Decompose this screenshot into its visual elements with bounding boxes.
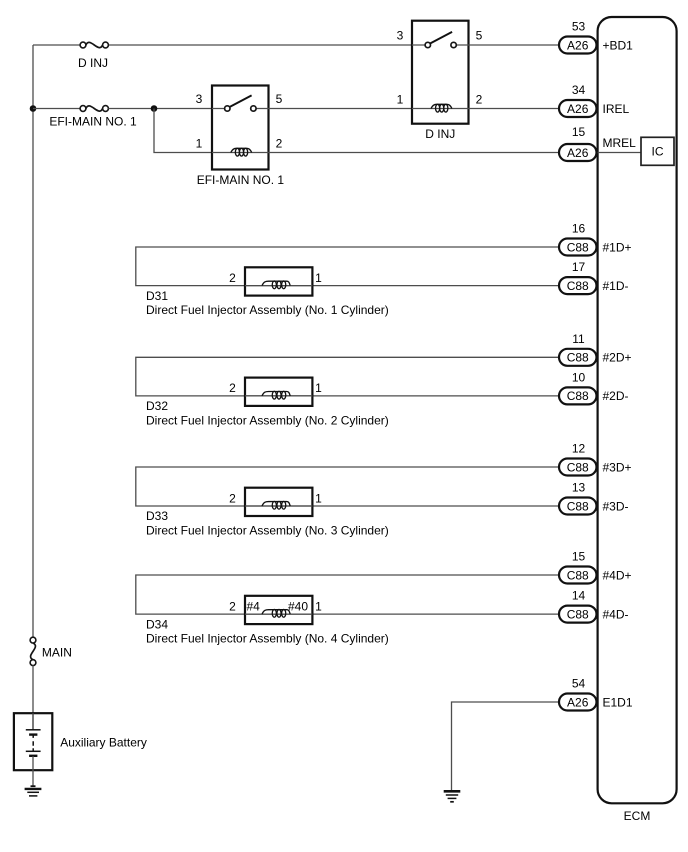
svg-text:#40: #40 bbox=[288, 599, 308, 613]
battery plate long + bbox=[26, 729, 41, 731]
fusible link MAIN bbox=[30, 637, 36, 665]
svg-text:A26: A26 bbox=[567, 102, 589, 116]
wire: R1 pin2 to MREL oval bbox=[269, 152, 560, 154]
svg-text:C88: C88 bbox=[567, 351, 589, 365]
connector C88 pin 12 bbox=[559, 442, 597, 476]
svg-text:C88: C88 bbox=[567, 389, 589, 403]
svg-text:D32: D32 bbox=[146, 399, 168, 413]
connector A26 pin 54 bbox=[559, 677, 597, 711]
wire: MREL oval to IC bbox=[597, 152, 642, 154]
svg-text:Direct Fuel Injector Assembly: Direct Fuel Injector Assembly (No. 4 Cyl… bbox=[146, 632, 389, 646]
svg-text:A26: A26 bbox=[567, 695, 589, 709]
wire through box bbox=[245, 505, 312, 507]
svg-text:3: 3 bbox=[196, 92, 203, 106]
connector A26 pin 15 bbox=[559, 125, 597, 161]
svg-text:#1D+: #1D+ bbox=[603, 240, 632, 254]
svg-text:11: 11 bbox=[572, 332, 585, 346]
svg-text:D33: D33 bbox=[146, 509, 168, 523]
svg-text:1: 1 bbox=[315, 491, 322, 505]
wire: E1D1 to ground bbox=[452, 702, 560, 791]
auxiliary battery bbox=[14, 713, 52, 786]
injector section D31 bbox=[136, 247, 559, 317]
svg-text:EFI-MAIN NO. 1: EFI-MAIN NO. 1 bbox=[197, 173, 285, 187]
injector D33 box bbox=[245, 488, 312, 516]
svg-text:D INJ: D INJ bbox=[78, 56, 108, 70]
svg-text:C88: C88 bbox=[567, 607, 589, 621]
svg-text:17: 17 bbox=[572, 260, 586, 274]
svg-text:E1D1: E1D1 bbox=[603, 695, 633, 709]
svg-text:MREL: MREL bbox=[603, 136, 637, 150]
relay EFI-MAIN NO. 1 bbox=[212, 86, 269, 170]
injector D34 box bbox=[245, 596, 312, 624]
svg-text:Direct Fuel Injector Assembly: Direct Fuel Injector Assembly (No. 1 Cyl… bbox=[146, 303, 389, 317]
svg-text:ECM: ECM bbox=[624, 809, 651, 823]
svg-text:53: 53 bbox=[572, 20, 586, 34]
battery plate short 2 bbox=[29, 755, 37, 757]
svg-text:A26: A26 bbox=[567, 146, 589, 160]
svg-text:C88: C88 bbox=[567, 460, 589, 474]
wire through box bbox=[245, 395, 312, 397]
svg-text:1: 1 bbox=[315, 381, 322, 395]
svg-text:5: 5 bbox=[276, 92, 283, 106]
relay coil R1 bbox=[231, 148, 252, 152]
svg-text:C88: C88 bbox=[567, 279, 589, 293]
junction dot branch bbox=[151, 105, 158, 112]
wire: #1D+ top run bbox=[136, 247, 559, 286]
svg-text:15: 15 bbox=[572, 550, 586, 564]
switch contacts R1 bbox=[225, 106, 230, 111]
svg-text:#3D-: #3D- bbox=[603, 499, 629, 513]
wire: #4D+ top run bbox=[136, 575, 559, 614]
svg-text:15: 15 bbox=[572, 125, 586, 139]
svg-text:D INJ: D INJ bbox=[425, 127, 455, 141]
coil D33 bbox=[262, 502, 290, 506]
svg-text:10: 10 bbox=[572, 370, 586, 384]
wire R1 switch stubs bbox=[212, 108, 269, 110]
wire: #3D+ top run bbox=[136, 467, 559, 506]
svg-text:C88: C88 bbox=[567, 568, 589, 582]
switch arm R1 bbox=[230, 95, 252, 107]
svg-text:13: 13 bbox=[572, 481, 586, 495]
ground (ECM E1D1) bbox=[444, 791, 461, 802]
svg-text:3: 3 bbox=[397, 29, 404, 43]
wire: fuse to relay R1 pin 3 bbox=[109, 108, 213, 110]
svg-text:IC: IC bbox=[652, 145, 664, 159]
IC box bbox=[641, 137, 674, 165]
svg-text:IREL: IREL bbox=[603, 102, 630, 116]
wire: MAIN link to battery bbox=[32, 665, 34, 729]
relay D INJ bbox=[412, 21, 469, 124]
switch contacts R2 bbox=[425, 42, 430, 47]
connector C88 pin 14 bbox=[559, 589, 597, 623]
svg-text:2: 2 bbox=[229, 381, 236, 395]
battery plate short - bbox=[29, 733, 37, 735]
svg-text:34: 34 bbox=[572, 83, 586, 97]
coil D32 bbox=[262, 392, 290, 396]
svg-text:1: 1 bbox=[315, 599, 322, 613]
svg-text:Direct Fuel Injector Assembly: Direct Fuel Injector Assembly (No. 3 Cyl… bbox=[146, 524, 389, 538]
wire battery lead bbox=[32, 713, 34, 729]
battery plate long 2 bbox=[26, 750, 41, 752]
connector C88 pin 10 bbox=[559, 370, 597, 404]
connector C88 pin 15 bbox=[559, 550, 597, 584]
wire R2 switch stubs bbox=[412, 44, 469, 46]
injector section D33 bbox=[136, 467, 559, 538]
wire R2 coil row bbox=[412, 108, 469, 110]
svg-text:A26: A26 bbox=[567, 38, 589, 52]
switch arm R2 bbox=[430, 32, 452, 44]
wire: R2 pin5 to +BD1 oval bbox=[469, 44, 560, 46]
wire: R2 pin2 to IREL oval bbox=[469, 108, 560, 110]
svg-text:2: 2 bbox=[229, 271, 236, 285]
injector D31 box bbox=[245, 267, 312, 295]
svg-text:Direct Fuel Injector Assembly: Direct Fuel Injector Assembly (No. 2 Cyl… bbox=[146, 414, 389, 428]
injector section D32 bbox=[136, 357, 559, 427]
svg-text:#4D-: #4D- bbox=[603, 607, 629, 621]
svg-text:+BD1: +BD1 bbox=[603, 38, 634, 52]
ground (battery) bbox=[25, 786, 42, 796]
svg-text:16: 16 bbox=[572, 222, 586, 236]
svg-text:14: 14 bbox=[572, 589, 586, 603]
svg-text:Auxiliary Battery: Auxiliary Battery bbox=[60, 736, 147, 750]
svg-text:#4D+: #4D+ bbox=[603, 568, 632, 582]
wire: #2D+ top run bbox=[136, 357, 559, 396]
injector section D34 bbox=[136, 575, 559, 646]
wire battery to ground bbox=[32, 756, 34, 787]
svg-text:#4: #4 bbox=[247, 599, 261, 613]
svg-text:54: 54 bbox=[572, 677, 586, 691]
wire: row2 to EFI-MAIN fuse bbox=[33, 108, 80, 110]
junction dot row2 bbox=[30, 105, 37, 112]
wire: row1 battery feed to D INJ fuse bbox=[33, 44, 80, 46]
wire: branch down to R1 pin 1 bbox=[154, 109, 212, 153]
wire R1 coil row bbox=[212, 152, 269, 154]
svg-text:2: 2 bbox=[276, 137, 283, 151]
fuse EFI-MAIN NO. 1 bbox=[80, 106, 108, 112]
svg-text:#1D-: #1D- bbox=[603, 279, 629, 293]
svg-text:1: 1 bbox=[196, 137, 203, 151]
connector C88 pin 11 bbox=[559, 332, 597, 366]
svg-text:12: 12 bbox=[572, 442, 586, 456]
svg-text:1: 1 bbox=[397, 93, 404, 107]
svg-text:C88: C88 bbox=[567, 240, 589, 254]
relay coil R2 bbox=[431, 104, 452, 108]
svg-text:D31: D31 bbox=[146, 289, 168, 303]
svg-text:2: 2 bbox=[476, 93, 483, 107]
svg-text:#3D+: #3D+ bbox=[603, 460, 632, 474]
svg-text:#2D+: #2D+ bbox=[603, 351, 632, 365]
connector A26 pin 53 bbox=[559, 20, 597, 54]
svg-text:D34: D34 bbox=[146, 617, 168, 631]
wire: D INJ fuse to D INJ relay pin 3 bbox=[109, 44, 413, 46]
svg-text:2: 2 bbox=[229, 491, 236, 505]
connector C88 pin 17 bbox=[559, 260, 597, 294]
connector C88 pin 16 bbox=[559, 222, 597, 256]
battery cell dashes bbox=[32, 735, 34, 751]
coil D34 bbox=[262, 610, 290, 614]
wire through box bbox=[245, 613, 312, 615]
connector C88 pin 13 bbox=[559, 481, 597, 515]
wire: main vertical feed bbox=[32, 45, 34, 638]
svg-text:#2D-: #2D- bbox=[603, 389, 629, 403]
fuse D INJ bbox=[80, 42, 108, 48]
svg-text:EFI-MAIN NO. 1: EFI-MAIN NO. 1 bbox=[49, 115, 137, 129]
svg-text:2: 2 bbox=[229, 599, 236, 613]
coil D31 bbox=[262, 281, 290, 285]
wire: R1 pin5 to R2 pin1 bbox=[269, 108, 413, 110]
ECM body bbox=[598, 17, 677, 803]
connector A26 pin 34 bbox=[559, 83, 597, 117]
svg-text:1: 1 bbox=[315, 271, 322, 285]
svg-text:MAIN: MAIN bbox=[42, 646, 72, 660]
svg-text:C88: C88 bbox=[567, 499, 589, 513]
wire through box bbox=[245, 285, 312, 287]
injector D32 box bbox=[245, 378, 312, 406]
svg-text:5: 5 bbox=[476, 29, 483, 43]
